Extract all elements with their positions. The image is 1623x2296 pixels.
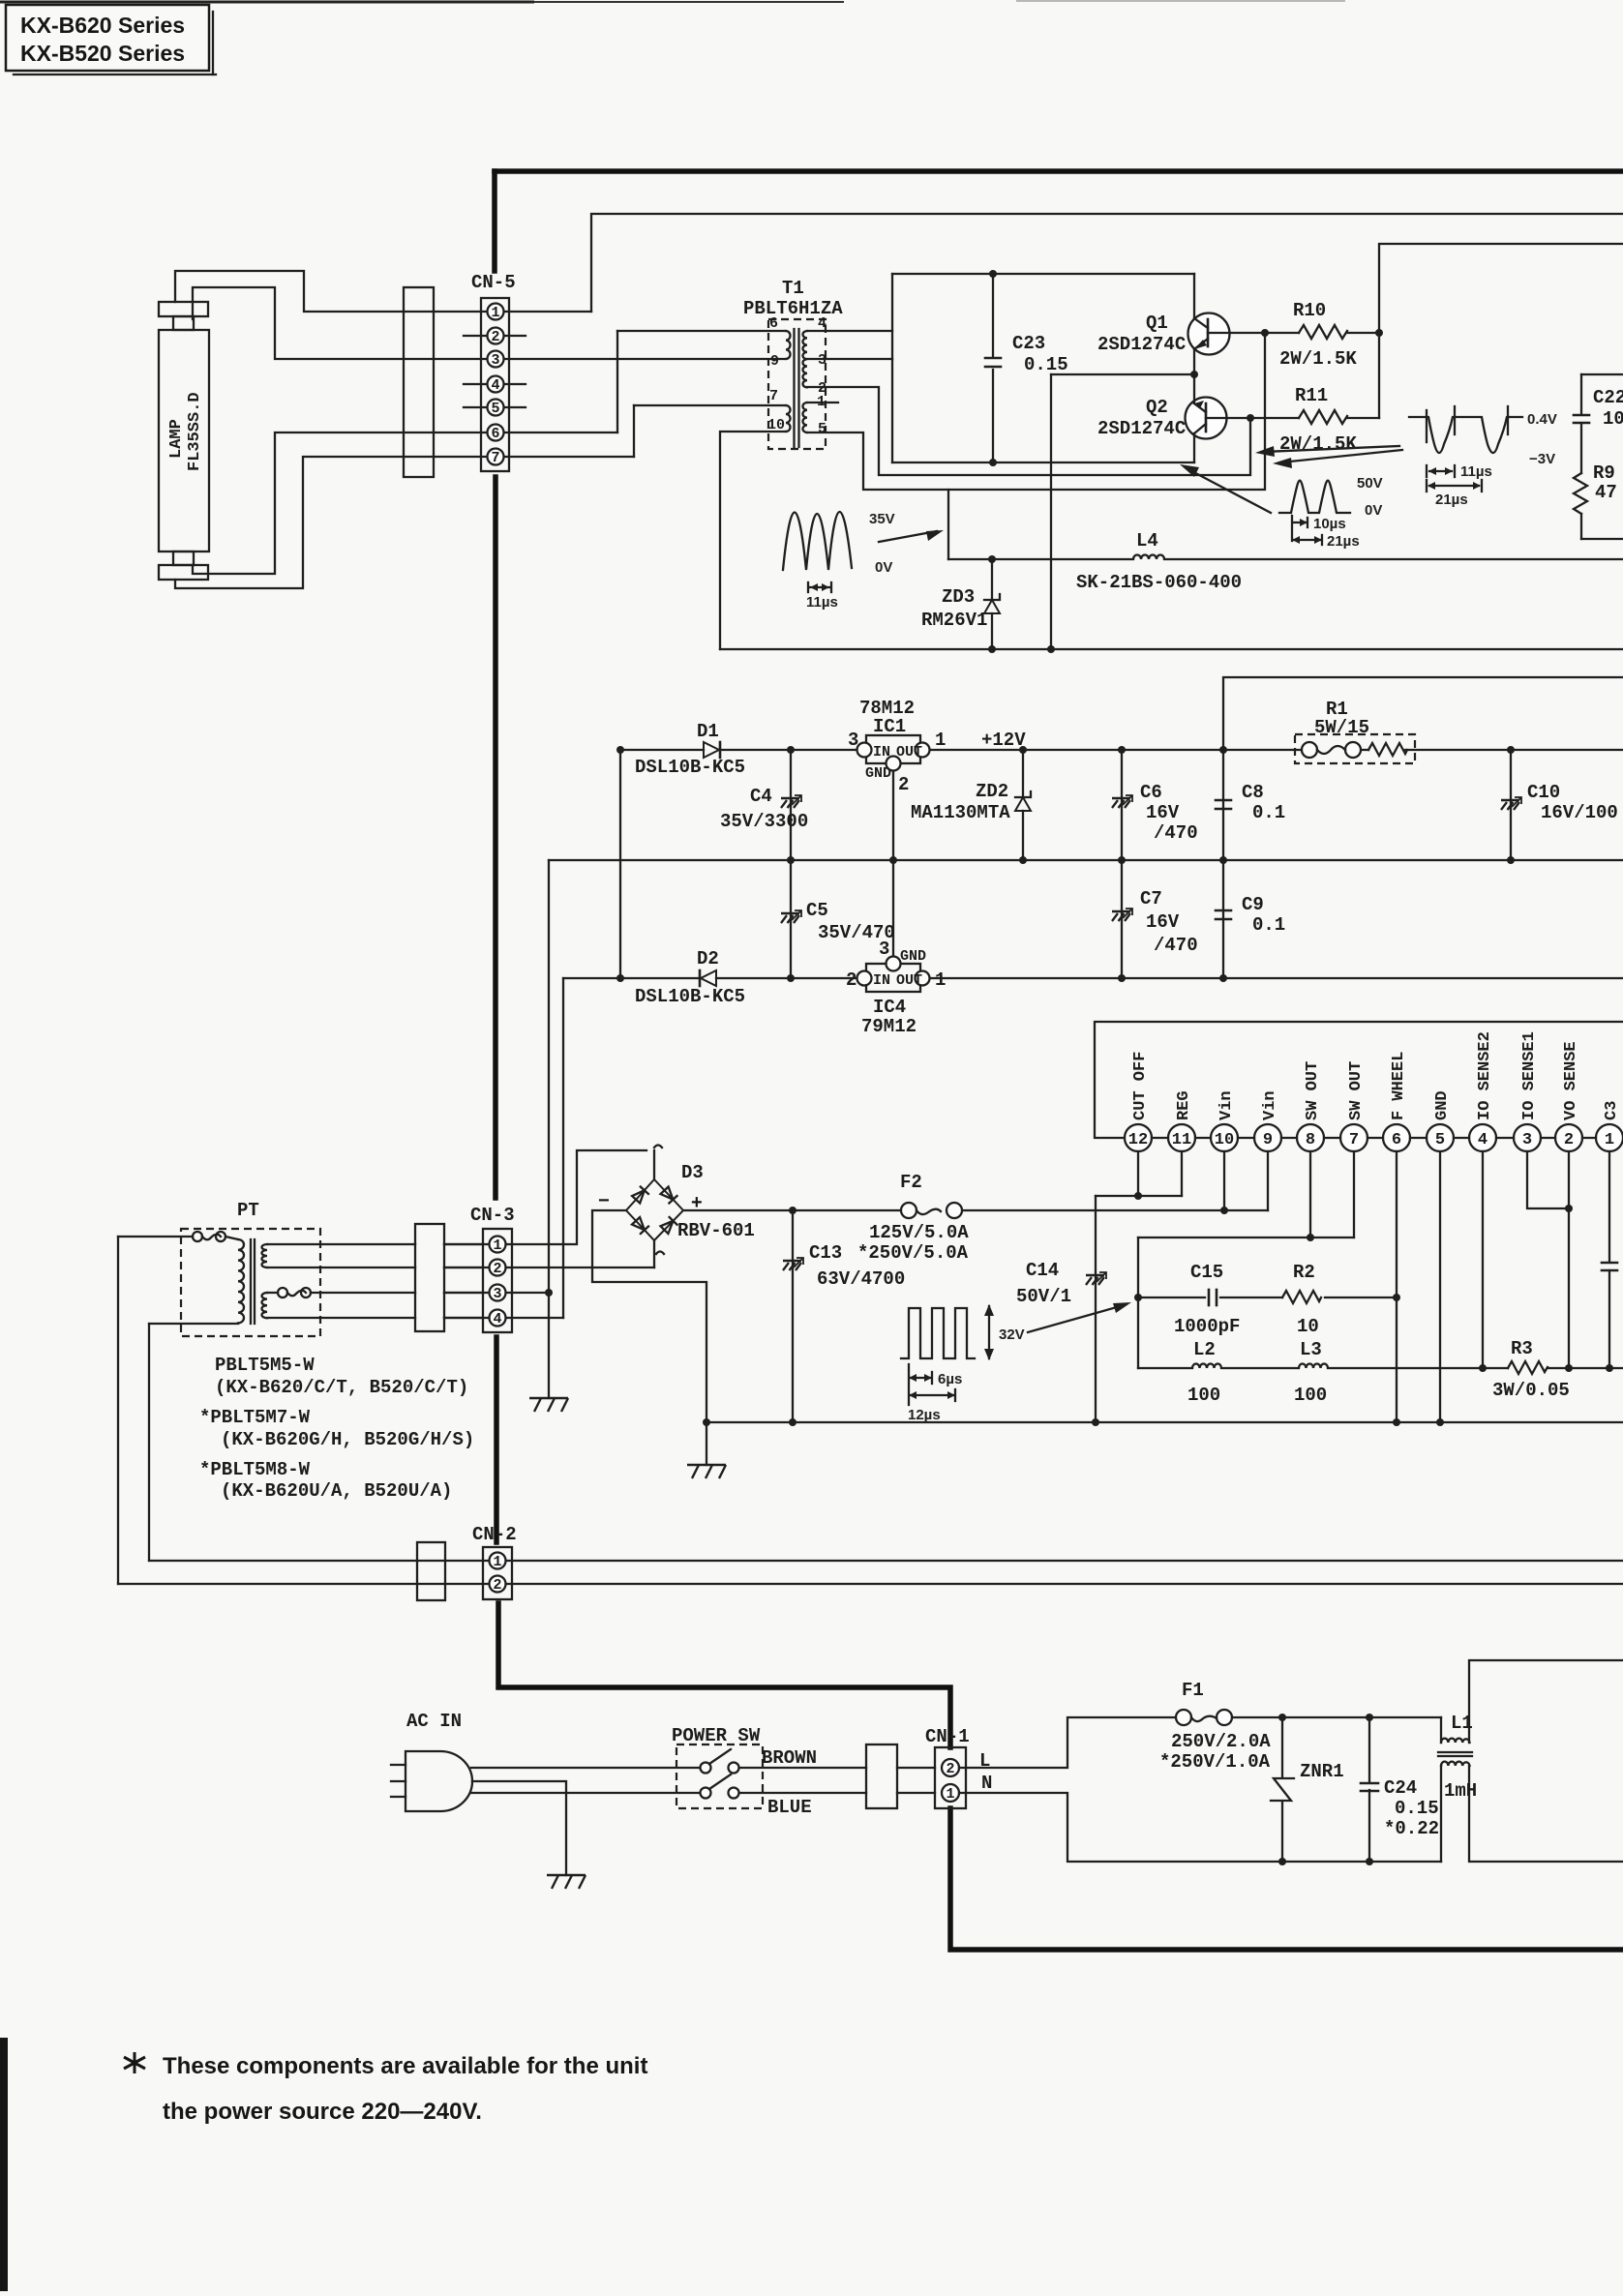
svg-text:R10: R10 — [1293, 300, 1326, 321]
svg-text:C22: C22 — [1593, 387, 1623, 408]
svg-text:0.15: 0.15 — [1024, 354, 1068, 375]
svg-text:R9: R9 — [1593, 462, 1615, 484]
svg-text:CN-5: CN-5 — [471, 272, 516, 293]
svg-text:CN-2: CN-2 — [472, 1524, 517, 1545]
svg-text:Vin: Vin — [1261, 1090, 1279, 1120]
svg-text:5: 5 — [818, 421, 827, 437]
svg-text:0V: 0V — [1365, 502, 1382, 519]
svg-text:PT: PT — [237, 1200, 259, 1221]
svg-text:*PBLT5M7-W: *PBLT5M7-W — [199, 1407, 311, 1428]
svg-text:SK-21BS-060-400: SK-21BS-060-400 — [1076, 572, 1242, 593]
svg-text:79M12: 79M12 — [861, 1016, 917, 1037]
svg-text:C15: C15 — [1190, 1262, 1223, 1283]
svg-text:GND: GND — [900, 948, 926, 965]
svg-text:POWER SW: POWER SW — [672, 1725, 761, 1746]
svg-text:(KX-B620U/A, B520U/A): (KX-B620U/A, B520U/A) — [221, 1480, 452, 1502]
svg-text:AC IN: AC IN — [406, 1711, 462, 1732]
svg-text:2: 2 — [846, 969, 857, 991]
svg-text:35V/3300: 35V/3300 — [720, 811, 808, 832]
svg-text:2: 2 — [946, 1761, 954, 1777]
svg-text:16V: 16V — [1146, 802, 1180, 823]
svg-text:32V: 32V — [999, 1327, 1025, 1343]
svg-text:3: 3 — [848, 730, 858, 751]
svg-text:3: 3 — [491, 352, 499, 369]
svg-text:8: 8 — [1306, 1131, 1315, 1149]
svg-text:100: 100 — [1294, 1385, 1327, 1406]
svg-text:LAMP: LAMP — [167, 419, 186, 459]
svg-text:the power source 220—240V.: the power source 220—240V. — [163, 2099, 482, 2125]
svg-text:ZD2: ZD2 — [976, 781, 1008, 802]
svg-text:−: − — [598, 1190, 610, 1211]
svg-text:3W/0.05: 3W/0.05 — [1492, 1380, 1570, 1401]
svg-text:C24: C24 — [1384, 1777, 1417, 1799]
svg-text:1: 1 — [946, 1786, 954, 1803]
svg-text:F2: F2 — [900, 1172, 922, 1193]
svg-text:6µs: 6µs — [938, 1371, 962, 1387]
svg-text:/470: /470 — [1154, 935, 1198, 956]
svg-text:1: 1 — [935, 730, 946, 751]
svg-text:(KX-B620G/H, B520G/H/S): (KX-B620G/H, B520G/H/S) — [221, 1429, 474, 1450]
svg-text:6: 6 — [491, 426, 499, 442]
svg-text:1: 1 — [493, 1554, 501, 1570]
svg-text:C13: C13 — [809, 1242, 842, 1264]
svg-text:2: 2 — [493, 1261, 501, 1277]
svg-text:CUT OFF: CUT OFF — [1131, 1052, 1150, 1120]
svg-text:0.4V: 0.4V — [1527, 411, 1557, 428]
svg-text:These components are available: These components are available for the u… — [163, 2053, 647, 2079]
svg-text:RBV-601: RBV-601 — [677, 1220, 755, 1241]
svg-text:BLUE: BLUE — [767, 1797, 812, 1818]
svg-text:−3V: −3V — [1529, 451, 1555, 467]
svg-text:47: 47 — [1595, 482, 1617, 503]
svg-text:BROWN: BROWN — [762, 1747, 817, 1769]
svg-text:1: 1 — [935, 969, 946, 991]
svg-text:VO SENSE: VO SENSE — [1562, 1041, 1580, 1120]
svg-text:DSL10B-KC5: DSL10B-KC5 — [635, 757, 745, 778]
svg-text:L3: L3 — [1300, 1339, 1322, 1360]
svg-text:PBLT5M5-W: PBLT5M5-W — [215, 1355, 315, 1376]
svg-text:IC4: IC4 — [873, 997, 906, 1018]
svg-text:IO SENSE1: IO SENSE1 — [1520, 1031, 1539, 1120]
svg-text:IO SENSE2: IO SENSE2 — [1476, 1031, 1494, 1120]
svg-text:OUT: OUT — [896, 744, 922, 760]
svg-text:250V/2.0A: 250V/2.0A — [1171, 1731, 1271, 1752]
svg-text:D1: D1 — [697, 721, 719, 742]
svg-text:CN-3: CN-3 — [470, 1205, 515, 1226]
svg-text:SW OUT: SW OUT — [1347, 1061, 1366, 1120]
svg-text:SW OUT: SW OUT — [1304, 1061, 1322, 1120]
svg-text:*250V/1.0A: *250V/1.0A — [1159, 1751, 1271, 1773]
svg-text:50V/1: 50V/1 — [1016, 1286, 1071, 1307]
svg-text:3: 3 — [1522, 1131, 1532, 1149]
svg-text:11: 11 — [1172, 1131, 1191, 1149]
svg-text:125V/5.0A: 125V/5.0A — [869, 1222, 969, 1243]
svg-text:0V: 0V — [875, 559, 892, 576]
svg-text:L4: L4 — [1136, 530, 1158, 552]
svg-text:IN: IN — [873, 744, 890, 760]
svg-text:0.1: 0.1 — [1252, 914, 1285, 936]
svg-text:9: 9 — [770, 353, 779, 370]
svg-text:(KX-B620/C/T, B520/C/T): (KX-B620/C/T, B520/C/T) — [215, 1377, 468, 1398]
svg-text:C23: C23 — [1012, 333, 1045, 354]
svg-text:63V/4700: 63V/4700 — [817, 1268, 905, 1290]
svg-text:11µs: 11µs — [1460, 463, 1492, 480]
svg-text:GND: GND — [865, 765, 891, 782]
svg-text:DSL10B-KC5: DSL10B-KC5 — [635, 986, 745, 1007]
svg-text:21µs: 21µs — [1435, 492, 1468, 508]
svg-text:1: 1 — [493, 1237, 501, 1254]
svg-text:10: 10 — [1603, 408, 1623, 430]
svg-text:+12V: +12V — [981, 730, 1026, 751]
svg-text:C14: C14 — [1026, 1260, 1059, 1281]
svg-text:9: 9 — [1263, 1131, 1273, 1149]
svg-text:4: 4 — [1478, 1131, 1488, 1149]
svg-text:D3: D3 — [681, 1162, 704, 1183]
svg-text:Q2: Q2 — [1146, 397, 1168, 418]
svg-text:0.15: 0.15 — [1395, 1798, 1439, 1819]
svg-text:F WHEEL: F WHEEL — [1390, 1052, 1408, 1120]
svg-text:RM26V1: RM26V1 — [921, 610, 987, 631]
svg-text:2W/1.5K: 2W/1.5K — [1279, 348, 1357, 370]
svg-text:C3: C3 — [1603, 1101, 1621, 1120]
svg-text:CN-1: CN-1 — [925, 1726, 970, 1747]
svg-text:50V: 50V — [1357, 475, 1383, 492]
svg-text:PBLT6H1ZA: PBLT6H1ZA — [743, 298, 843, 319]
svg-text:IC1: IC1 — [873, 716, 906, 737]
svg-text:10: 10 — [1297, 1316, 1319, 1337]
svg-text:T1: T1 — [782, 278, 804, 299]
svg-text:3: 3 — [818, 352, 827, 369]
svg-text:Vin: Vin — [1217, 1090, 1236, 1120]
svg-text:2SD1274C: 2SD1274C — [1097, 334, 1186, 355]
svg-text:ZNR1: ZNR1 — [1300, 1761, 1344, 1782]
svg-text:35V: 35V — [869, 511, 895, 527]
svg-text:1mH: 1mH — [1444, 1780, 1477, 1802]
svg-text:C8: C8 — [1242, 782, 1264, 803]
svg-text:7: 7 — [491, 450, 499, 466]
svg-text:2: 2 — [1564, 1131, 1574, 1149]
svg-text:2: 2 — [491, 329, 499, 345]
svg-text:Q1: Q1 — [1146, 313, 1168, 334]
svg-text:GND: GND — [1433, 1090, 1452, 1120]
svg-text:12µs: 12µs — [908, 1407, 941, 1423]
svg-text:4: 4 — [491, 377, 499, 394]
svg-text:R2: R2 — [1293, 1262, 1315, 1283]
svg-text:5: 5 — [491, 401, 499, 417]
svg-text:6: 6 — [769, 315, 778, 332]
svg-text:D2: D2 — [697, 948, 719, 969]
svg-text:3: 3 — [493, 1286, 501, 1302]
svg-text:*0.22: *0.22 — [1384, 1818, 1439, 1839]
svg-text:11µs: 11µs — [806, 594, 838, 611]
svg-text:C5: C5 — [806, 900, 828, 921]
svg-text:R3: R3 — [1511, 1338, 1533, 1359]
svg-text:C9: C9 — [1242, 894, 1264, 915]
svg-text:L2: L2 — [1193, 1339, 1216, 1360]
svg-text:2: 2 — [898, 774, 909, 795]
svg-text:100: 100 — [1187, 1385, 1220, 1406]
svg-text:0.1: 0.1 — [1252, 802, 1285, 823]
svg-text:C4: C4 — [750, 786, 772, 807]
svg-text:KX-B620 Series: KX-B620 Series — [20, 13, 185, 38]
svg-text:4: 4 — [493, 1311, 501, 1327]
svg-text:35V/470: 35V/470 — [818, 922, 895, 943]
svg-text:C10: C10 — [1527, 782, 1560, 803]
svg-text:1000pF: 1000pF — [1174, 1316, 1240, 1337]
svg-text:/470: /470 — [1154, 822, 1198, 844]
svg-text:R11: R11 — [1295, 385, 1328, 406]
svg-text:1: 1 — [491, 305, 499, 321]
svg-text:6: 6 — [1392, 1131, 1401, 1149]
svg-text:OUT: OUT — [896, 972, 922, 989]
svg-text:16V/100: 16V/100 — [1541, 802, 1618, 823]
svg-text:16V: 16V — [1146, 911, 1180, 933]
svg-text:MA1130MTA: MA1130MTA — [911, 802, 1010, 823]
svg-text:*250V/5.0A: *250V/5.0A — [857, 1242, 969, 1264]
svg-text:REG: REG — [1175, 1090, 1193, 1120]
svg-text:7: 7 — [769, 388, 778, 404]
svg-text:10µs: 10µs — [1313, 516, 1346, 532]
svg-text:C6: C6 — [1140, 782, 1162, 803]
svg-text:2: 2 — [493, 1577, 501, 1594]
svg-text:KX-B520 Series: KX-B520 Series — [20, 41, 185, 66]
svg-text:*PBLT5M8-W: *PBLT5M8-W — [199, 1459, 311, 1480]
svg-text:FL35SS.D: FL35SS.D — [186, 392, 204, 471]
svg-text:5: 5 — [1435, 1131, 1445, 1149]
svg-text:C7: C7 — [1140, 888, 1162, 909]
svg-text:2SD1274C: 2SD1274C — [1097, 418, 1186, 439]
svg-text:4: 4 — [818, 315, 827, 332]
svg-text:F1: F1 — [1182, 1680, 1204, 1701]
svg-text:10: 10 — [1215, 1131, 1234, 1149]
svg-text:N: N — [981, 1773, 992, 1794]
svg-text:21µs: 21µs — [1327, 533, 1360, 550]
svg-text:12: 12 — [1128, 1131, 1148, 1149]
svg-text:ZD3: ZD3 — [942, 586, 975, 608]
svg-text:IN: IN — [873, 972, 890, 989]
svg-text:1: 1 — [1605, 1131, 1614, 1149]
svg-text:7: 7 — [1349, 1131, 1359, 1149]
